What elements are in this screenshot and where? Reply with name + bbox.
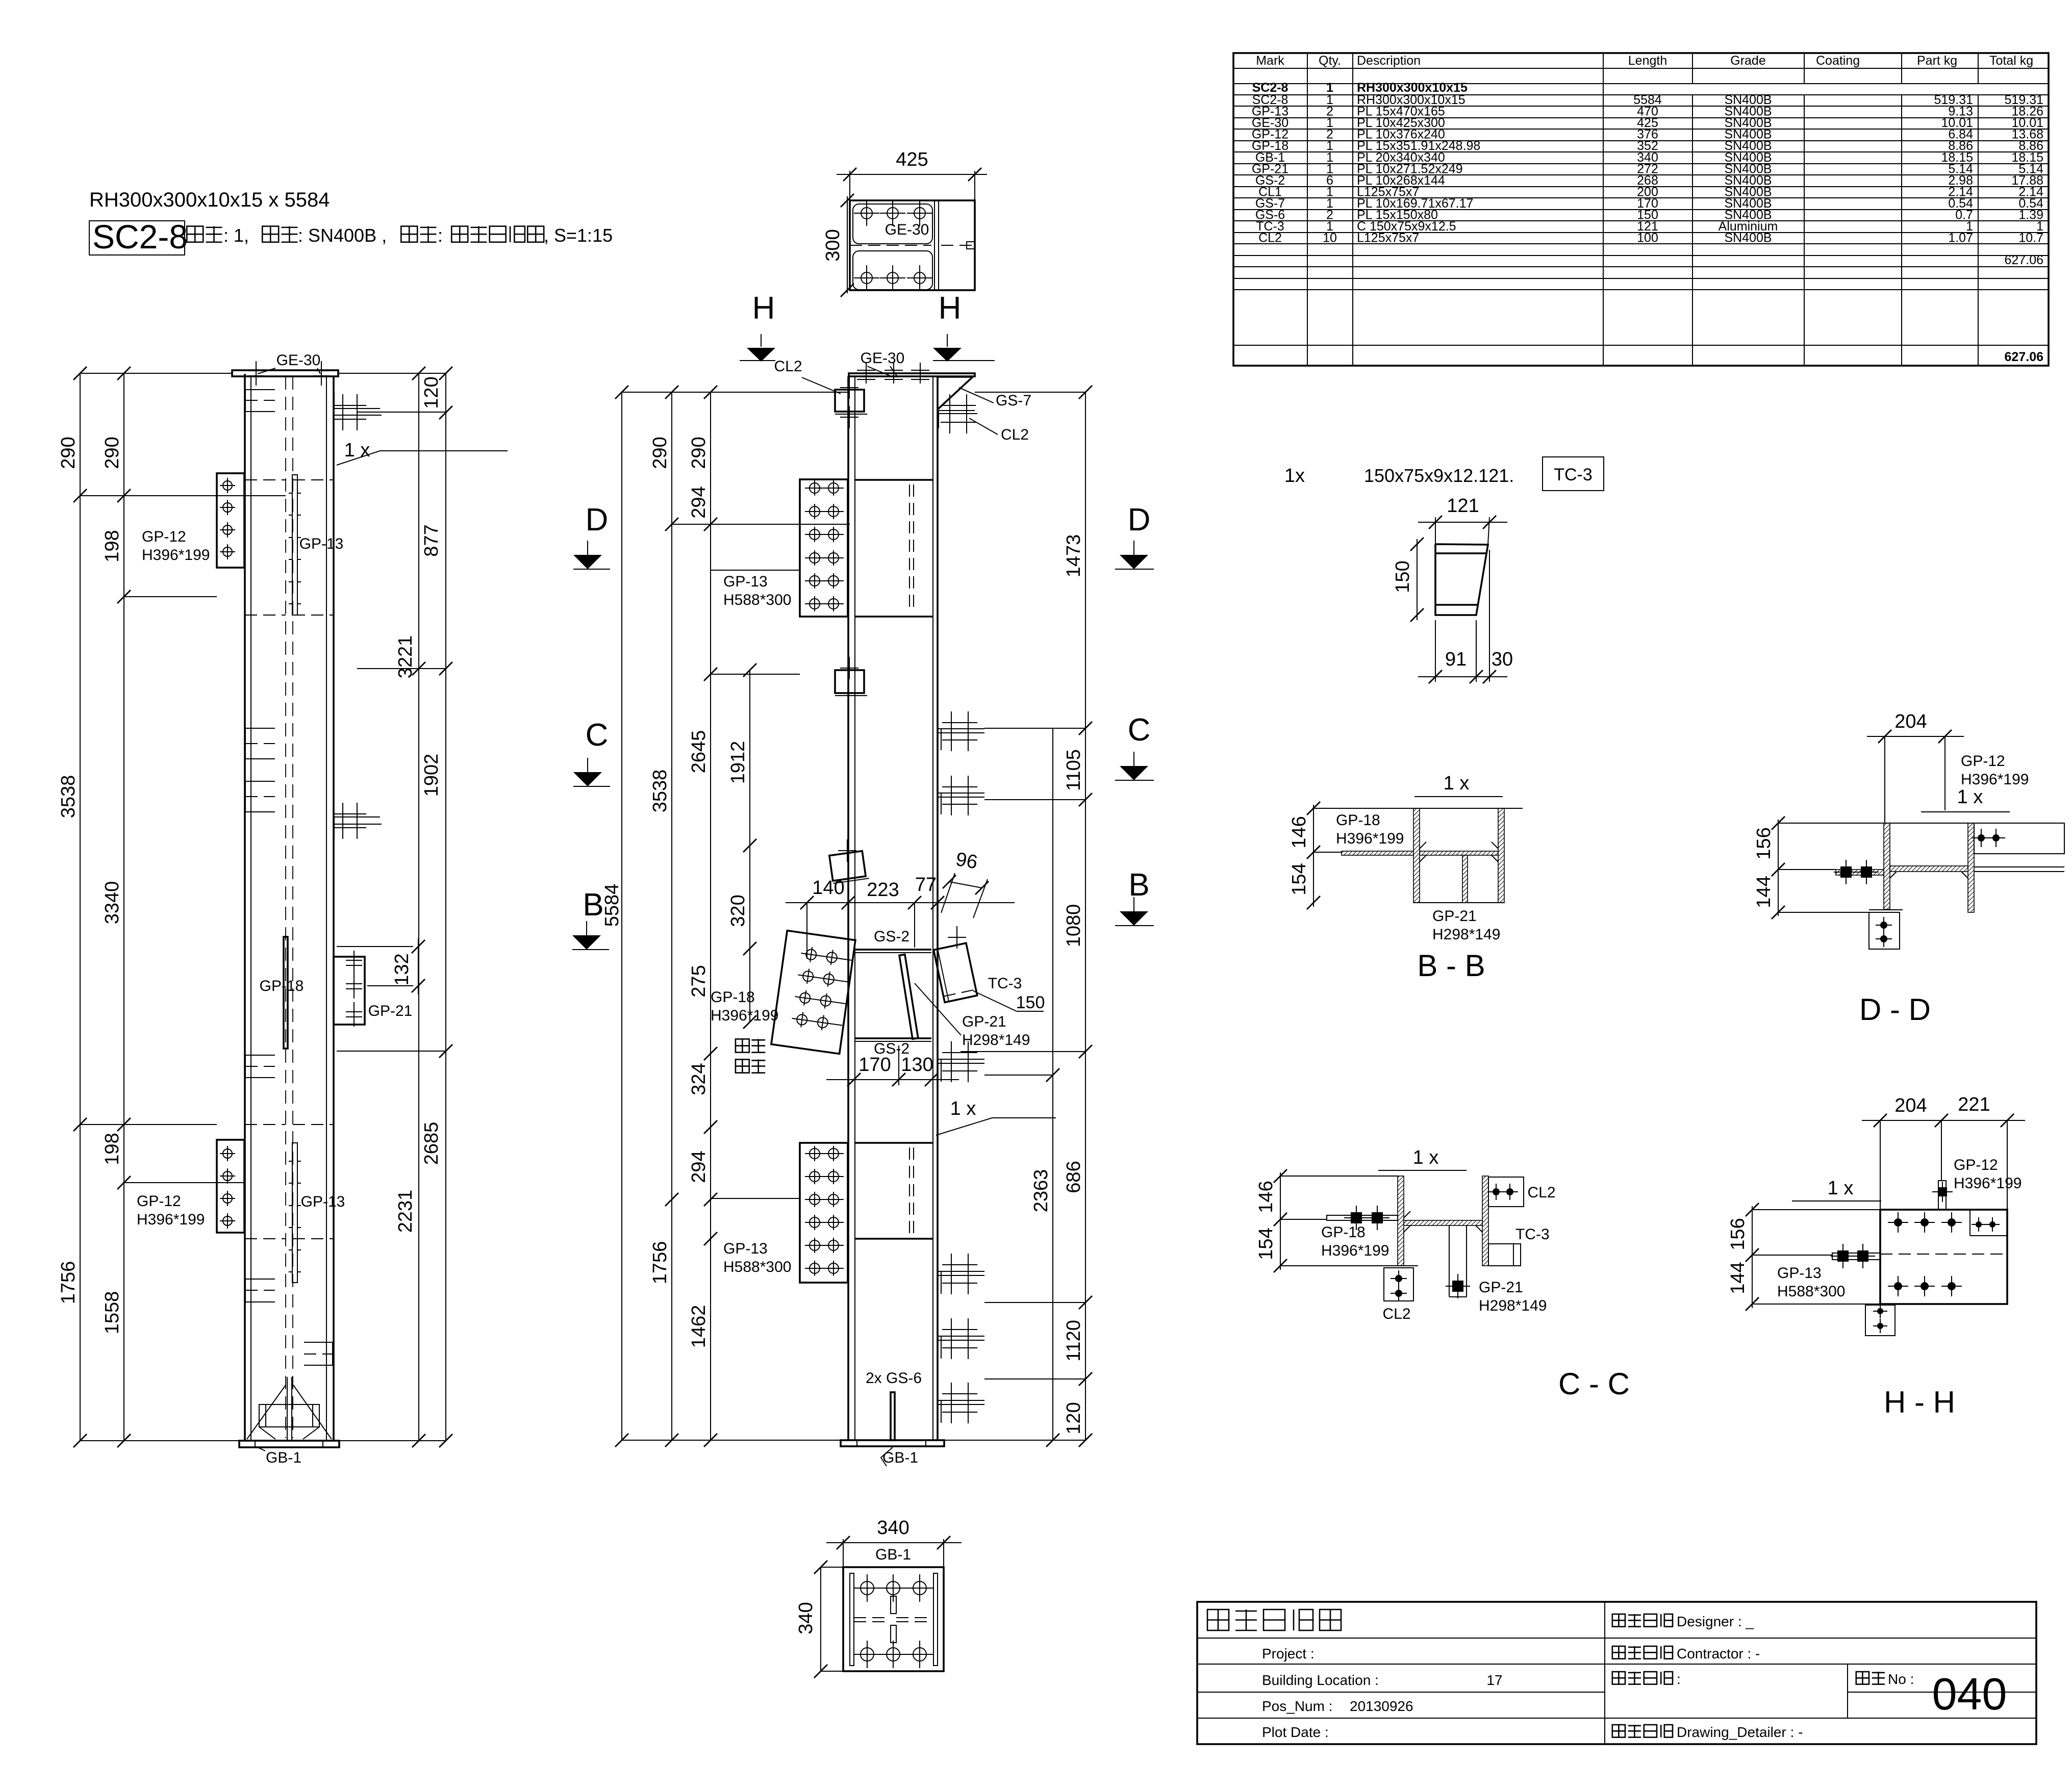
section D-D bottom plate CL (1869, 912, 1900, 949)
svg-text:275: 275 (688, 965, 710, 997)
svg-text:324: 324 (688, 1063, 710, 1095)
svg-text:C - C: C - C (1558, 1367, 1630, 1401)
svg-text:223: 223 (867, 879, 899, 901)
svg-text:156: 156 (1727, 1218, 1749, 1250)
svg-text:150: 150 (1392, 560, 1413, 593)
svg-text:TC-3: TC-3 (988, 975, 1022, 992)
svg-text:H298*149: H298*149 (1479, 1297, 1547, 1314)
svg-text:150: 150 (1016, 993, 1045, 1012)
svg-text:150x75x9x12.121.: 150x75x9x12.121. (1364, 465, 1514, 486)
left elevation inner dim line 290 198 3340 198 1558 (123, 373, 124, 1441)
svg-text:130: 130 (901, 1054, 933, 1076)
svg-text:GP-12: GP-12 (137, 1193, 181, 1210)
svg-text:686: 686 (1063, 1161, 1084, 1193)
svg-text:C: C (1128, 712, 1151, 748)
svg-text:RH300x300x10x15 x 5584: RH300x300x10x15 x 5584 (89, 189, 330, 211)
middle elevation dim line 5584 (621, 392, 622, 1440)
svg-text:GB-1: GB-1 (875, 1546, 911, 1563)
stiffener GS-2 lower (855, 1037, 931, 1039)
svg-text:GP-21: GP-21 (1479, 1279, 1523, 1296)
tilted plate CL on web (829, 851, 869, 883)
middle elevation extension lines (622, 392, 849, 393)
middle elevation horizontal dims 170 130 (826, 1079, 959, 1080)
svg-text:GP-12: GP-12 (1961, 753, 2005, 770)
svg-text:C: C (586, 718, 609, 753)
svg-text:H - H: H - H (1884, 1385, 1955, 1419)
beam GP-21 tilted edge view (899, 955, 918, 1039)
section H-H dims 156 144 (1752, 1206, 1753, 1308)
splice plate GP-13 upper middle view (800, 479, 848, 617)
svg-text:1120: 1120 (1063, 1320, 1084, 1362)
svg-text:77: 77 (915, 874, 937, 896)
svg-text:GP-21: GP-21 (1432, 908, 1477, 925)
TC-3 mark box (1543, 457, 1604, 491)
svg-text:10: 10 (1323, 231, 1337, 245)
svg-text:2231: 2231 (395, 1190, 416, 1233)
section D-D plate GP-12 right (1974, 823, 2064, 854)
beam pass lower middle view (855, 1142, 933, 1144)
svg-text:Qty.: Qty. (1319, 54, 1341, 68)
plate GP-18 edge view left elevation (284, 937, 288, 1049)
left elevation outer dim line 3538 1756 (80, 373, 81, 1441)
section H-H plate GP-12 top (1938, 1181, 1946, 1210)
svg-text:GS-7: GS-7 (996, 392, 1031, 409)
title block 圖面簽章 (1612, 1672, 1625, 1684)
svg-text:H: H (939, 291, 962, 326)
svg-text:1080: 1080 (1063, 904, 1084, 948)
svg-text:1 x: 1 x (950, 1098, 976, 1119)
section H-H plate GP-13 face (1880, 1210, 2007, 1304)
section B-B weld marks (1420, 855, 1426, 862)
section D-D column flange right (1968, 823, 1974, 912)
svg-text:3538: 3538 (58, 775, 79, 819)
section D-D column flange left (1884, 823, 1890, 909)
svg-text:1756: 1756 (58, 1261, 79, 1305)
svg-text:Contractor : -: Contractor : - (1677, 1646, 1760, 1662)
svg-text:GP-18: GP-18 (711, 989, 755, 1006)
svg-text:3221: 3221 (395, 635, 416, 679)
svg-text:1.07: 1.07 (1948, 231, 1973, 245)
svg-text:GP-13: GP-13 (1777, 1265, 1822, 1282)
splice plate GP-12 lower left view (217, 1140, 244, 1233)
base stiffener detail left view (259, 1404, 319, 1427)
GE-30 detail flange line (934, 200, 935, 290)
svg-text:H298*149: H298*149 (962, 1032, 1030, 1049)
middle elevation dim line 290 3538 1756 (671, 392, 672, 1440)
section C-C weld marks (1404, 1225, 1410, 1232)
lower C brackets left view (245, 1055, 275, 1078)
svg-text:TC-3: TC-3 (1515, 1226, 1550, 1243)
svg-text:146: 146 (1255, 1181, 1277, 1213)
svg-text:B: B (583, 887, 603, 923)
svg-text:1105: 1105 (1063, 749, 1084, 791)
svg-text:294: 294 (688, 486, 710, 518)
stiffener GS-2 upper (855, 949, 931, 951)
svg-text:290: 290 (102, 437, 123, 469)
section D-D plate GP-13 left (1836, 870, 1884, 875)
upper right angle clip CL (334, 408, 380, 409)
left elevation right outer dim line 120 877 1902 2685 (445, 373, 446, 1441)
svg-text:L125x75x7: L125x75x7 (1357, 231, 1419, 245)
svg-text:CL2: CL2 (1527, 1184, 1555, 1201)
splice plate GP-13 edge view upper (292, 475, 297, 615)
title block Designer (1612, 1614, 1625, 1627)
beam hidden lines upper left view (245, 479, 286, 480)
column SC2-8 left elevation body (244, 374, 246, 1441)
svg-text:H396*199: H396*199 (1954, 1175, 2022, 1192)
svg-text:H: H (752, 291, 775, 326)
svg-text:SN400B: SN400B (1724, 231, 1772, 245)
section H-H bottom plate CL (1865, 1305, 1895, 1336)
channel TC-3 tilted middle view (933, 943, 977, 1002)
svg-text:121: 121 (1447, 495, 1479, 517)
svg-text:H396*199: H396*199 (711, 1007, 778, 1024)
svg-text:Coating: Coating (1816, 54, 1860, 68)
svg-text:294: 294 (688, 1151, 710, 1183)
svg-text:H588*300: H588*300 (723, 1259, 791, 1275)
svg-text:Part kg: Part kg (1917, 54, 1957, 68)
middle elevation right dim 2363 (1052, 728, 1053, 1440)
svg-text:290: 290 (688, 437, 710, 469)
svg-text:H396*199: H396*199 (1961, 771, 2029, 788)
svg-text:B - B: B - B (1417, 949, 1485, 983)
section B-B plate GP-21 (1462, 855, 1468, 903)
section D-D dims 156 144 (1778, 820, 1779, 916)
section D-D outline (1884, 823, 1974, 824)
svg-text:GP-18: GP-18 (1321, 1224, 1366, 1241)
svg-text:2x GS-6: 2x GS-6 (866, 1370, 922, 1387)
svg-text:D: D (586, 502, 609, 538)
svg-text:H588*300: H588*300 (723, 592, 791, 608)
svg-text:144: 144 (1727, 1262, 1749, 1294)
angle clip CL2 below GS-7 (939, 410, 975, 411)
svg-text:2363: 2363 (1030, 1169, 1052, 1213)
svg-text:1 x: 1 x (1444, 773, 1470, 794)
section C-C dims 146 154 (1280, 1172, 1281, 1270)
svg-text:198: 198 (102, 530, 123, 562)
base plate GB-1 middle view (841, 1440, 944, 1446)
plate CL2 mid web (835, 670, 864, 693)
svg-text:GP-13: GP-13 (299, 535, 344, 552)
svg-text:627.06: 627.06 (2005, 350, 2043, 364)
splice plate GP-13 edge view lower (292, 1143, 297, 1283)
svg-text:30: 30 (1492, 649, 1513, 670)
svg-text:GP-18: GP-18 (1336, 812, 1380, 829)
svg-text:120: 120 (421, 376, 442, 408)
svg-text:GP-21: GP-21 (368, 1003, 413, 1019)
svg-text:120: 120 (1063, 1402, 1084, 1434)
svg-text:GS-2: GS-2 (874, 928, 909, 945)
left elevation extension lines (80, 373, 232, 374)
middle elevation horizontal dims 140 223 77 (786, 902, 1015, 903)
svg-text:1 x: 1 x (1828, 1178, 1854, 1199)
svg-text:154: 154 (1288, 863, 1310, 895)
svg-text:GB-1: GB-1 (266, 1449, 301, 1466)
svg-text:221: 221 (1958, 1094, 1990, 1115)
GB-1 bolt holes (861, 1581, 874, 1595)
svg-text:3340: 3340 (102, 881, 123, 925)
splice plate GP-12 upper left view (217, 473, 244, 568)
section B-B dims 146 154 (1313, 805, 1314, 907)
left elevation right inner dim line 3221 2231 (418, 373, 419, 1441)
svg-text:GP-18: GP-18 (260, 978, 304, 994)
section C-C plate CL2 bottom (1384, 1268, 1413, 1301)
svg-text:CL2: CL2 (1001, 426, 1029, 443)
svg-text:5584: 5584 (601, 884, 623, 927)
section D-D web (1890, 866, 1968, 872)
svg-text:D: D (1128, 502, 1151, 538)
svg-text:CL2: CL2 (1258, 231, 1282, 245)
svg-text:D - D: D - D (1859, 992, 1931, 1027)
section C-C beam GP-21 (1449, 1225, 1450, 1297)
beam hidden lines lower left view (245, 1124, 286, 1125)
svg-text:Grade: Grade (1730, 54, 1765, 68)
plate GP-18 tilted middle view (771, 931, 855, 1054)
GE-30 detail bolts (861, 208, 872, 219)
svg-text:877: 877 (421, 524, 442, 556)
section B-B outline (1413, 808, 1504, 809)
section C-C column flange left (1398, 1176, 1404, 1266)
svg-text:CL2: CL2 (1382, 1306, 1410, 1322)
svg-text:170: 170 (858, 1054, 891, 1076)
section D-D dim 204 (1867, 736, 1964, 737)
section B-B plate GP-18 (1342, 851, 1413, 855)
svg-text:96: 96 (954, 849, 979, 874)
svg-text:H396*199: H396*199 (137, 1211, 205, 1228)
upper left C bracket hidden (245, 390, 275, 412)
svg-text:H396*199: H396*199 (142, 547, 210, 564)
svg-text:H396*199: H396*199 (1336, 830, 1404, 847)
svg-text:290: 290 (58, 437, 79, 469)
section C-C plate GP-18 left (1327, 1215, 1398, 1220)
section H-H plate GP-13 bar left (1832, 1253, 1880, 1260)
GB-1 flange edge strips (850, 1573, 854, 1666)
svg-text:Total kg: Total kg (1989, 54, 2033, 68)
section C-C column flange right (1482, 1176, 1488, 1266)
svg-text:H588*300: H588*300 (1777, 1283, 1845, 1300)
dim 150 TC-3 (1417, 539, 1418, 620)
dim 340 left GB-1 (820, 1567, 821, 1671)
section B-B web (1420, 851, 1498, 855)
svg-text:144: 144 (1753, 876, 1775, 908)
svg-text:156: 156 (1753, 827, 1775, 859)
left elevation web centerline (285, 376, 286, 1438)
angle clips right flange C level (938, 728, 984, 729)
svg-text:SC2-8: SC2-8 (92, 218, 188, 255)
svg-text:Drawing_Detailer : -: Drawing_Detailer : - (1677, 1724, 1803, 1740)
svg-text:GP-12: GP-12 (142, 528, 186, 545)
plate detail GE-30 outline (850, 200, 975, 290)
svg-text:1902: 1902 (421, 754, 442, 797)
svg-text:627.06: 627.06 (2005, 253, 2043, 267)
middle elevation inner dim 1912 320 (749, 670, 750, 1022)
dim 340 GB-1 detail (826, 1542, 962, 1543)
dims 91 30 TC-3 (1418, 676, 1507, 677)
svg-text:H396*199: H396*199 (1321, 1242, 1389, 1259)
svg-text:TC-3: TC-3 (1554, 465, 1593, 484)
section C-C web (1404, 1220, 1482, 1225)
section C-C channel TC-3 right (1488, 1244, 1521, 1266)
svg-text:GE-30: GE-30 (861, 350, 905, 367)
svg-text:: SN400B ,: : SN400B , (298, 225, 387, 246)
mid right angle clip (334, 816, 380, 817)
splice plate GP-13 lower middle view (800, 1143, 848, 1283)
svg-text:: 1,: : 1, (223, 225, 249, 246)
title block heading 構件加工圖 (1207, 1609, 1229, 1630)
title block Drawing Detailer (1612, 1725, 1625, 1737)
svg-text:300: 300 (822, 229, 844, 261)
svg-text:Building Location :: Building Location : (1262, 1672, 1379, 1688)
top end plate GE-30 edge view (232, 370, 338, 376)
plate GP-21 left elevation (334, 957, 365, 1025)
note first bolt row chinese (736, 1039, 749, 1052)
svg-text:340: 340 (795, 1602, 817, 1634)
svg-text:140: 140 (812, 877, 844, 899)
GE-30 detail hidden section outline (853, 204, 932, 244)
mid C brackets left side (245, 728, 275, 759)
dim 425 GE-30 detail (837, 174, 987, 175)
svg-text:, S=1:15: , S=1:15 (544, 225, 613, 246)
part mark box SC2-8 (89, 221, 185, 255)
base plate GB-1 edge view left (239, 1441, 339, 1447)
svg-text:Description: Description (1357, 54, 1421, 68)
svg-text:198: 198 (102, 1133, 123, 1165)
top end plate GE-30 edge view middle (849, 373, 975, 376)
svg-text:GP-13: GP-13 (301, 1193, 345, 1210)
GB-1 center slots (891, 1596, 896, 1614)
svg-text:100: 100 (1637, 231, 1658, 245)
middle elevation right dim line 1473 1105 1080 686 1120 120 (1085, 392, 1086, 1440)
svg-text:154: 154 (1255, 1228, 1277, 1260)
svg-text:1558: 1558 (102, 1291, 123, 1335)
svg-text:20130926: 20130926 (1350, 1698, 1413, 1714)
svg-text:1912: 1912 (727, 741, 749, 784)
svg-text:91: 91 (1445, 649, 1467, 670)
svg-text:1 x: 1 x (1413, 1147, 1439, 1168)
svg-text::: : (1677, 1671, 1681, 1687)
svg-text:H298*149: H298*149 (1432, 926, 1500, 943)
svg-text::: : (438, 225, 443, 246)
svg-text:1x: 1x (1284, 465, 1305, 487)
dim 300 GE-30 detail (847, 196, 848, 293)
svg-text:GP-21: GP-21 (962, 1013, 1006, 1030)
dim 96 tilted (949, 882, 982, 888)
svg-text:Designer : _: Designer : _ (1677, 1614, 1754, 1629)
GB-1 hidden web lines (854, 1617, 891, 1618)
svg-text:1 x: 1 x (344, 440, 370, 461)
dim 132 left view (418, 938, 419, 994)
svg-text:204: 204 (1894, 711, 1927, 732)
svg-text:Length: Length (1628, 54, 1667, 68)
svg-text:040: 040 (1932, 1669, 2007, 1719)
column SC2-8 middle elevation right flange (932, 376, 933, 1440)
title block 圖號No (1856, 1672, 1869, 1684)
svg-text:290: 290 (649, 437, 671, 469)
plate CL2 top left middle view (835, 390, 864, 412)
angle clips right flange lower middle view (938, 1059, 984, 1060)
svg-text:3538: 3538 (649, 770, 671, 813)
dim 121 TC-3 (1418, 522, 1507, 523)
svg-text:2645: 2645 (688, 730, 710, 774)
title block frame (1197, 1602, 2036, 1744)
svg-text:1756: 1756 (649, 1241, 671, 1285)
svg-text:17: 17 (1486, 1672, 1502, 1688)
parts list table (1233, 53, 2049, 366)
svg-text:132: 132 (391, 953, 413, 985)
column SC2-8 middle elevation left flange (847, 376, 849, 1440)
top plate bolts middle view (866, 363, 867, 384)
svg-text:340: 340 (877, 1517, 909, 1539)
svg-text:1473: 1473 (1063, 534, 1084, 578)
gusset GS-7 top right (938, 377, 973, 409)
svg-text:146: 146 (1288, 816, 1310, 848)
middle elevation dim line 294 2645 ... (710, 392, 711, 1440)
beam pass upper middle view (855, 479, 933, 481)
base plate GB-1 outline (843, 1567, 944, 1671)
svg-text:Project :: Project : (1262, 1646, 1315, 1662)
svg-text:CL2: CL2 (774, 358, 802, 375)
svg-text:204: 204 (1894, 1095, 1927, 1116)
part attributes text (187, 226, 203, 242)
svg-text:Mark: Mark (1256, 54, 1284, 68)
top plate bolts left view (256, 361, 257, 386)
svg-text:No :: No : (1888, 1671, 1914, 1687)
svg-text:Pos_Num :: Pos_Num : (1262, 1698, 1333, 1714)
svg-text:2685: 2685 (421, 1122, 442, 1165)
svg-text:GP-12: GP-12 (1954, 1157, 1998, 1173)
svg-text:GE-30: GE-30 (885, 221, 929, 238)
svg-text:GP-13: GP-13 (723, 573, 768, 590)
channel TC-3 cross section detail (1435, 544, 1488, 615)
svg-text:GP-13: GP-13 (723, 1240, 768, 1257)
svg-text:GE-30: GE-30 (276, 352, 321, 369)
section B-B column flange right (1498, 808, 1504, 903)
svg-text:10.7: 10.7 (2018, 231, 2043, 245)
section B-B column flange left (1413, 808, 1420, 903)
svg-text:320: 320 (727, 895, 749, 927)
svg-text:1 x: 1 x (1957, 786, 1983, 808)
stiffener GS-6 pair bottom (891, 1392, 895, 1440)
section H-H dims 204 221 (1862, 1120, 2025, 1121)
svg-text:Plot Date :: Plot Date : (1262, 1724, 1329, 1740)
section D-D weld marks (1890, 872, 1897, 878)
svg-text:B: B (1128, 867, 1149, 903)
title block Contractor (1612, 1646, 1625, 1659)
svg-text:1462: 1462 (688, 1305, 710, 1348)
section C-C plate CL2 top right (1488, 1177, 1524, 1207)
svg-text:425: 425 (896, 149, 928, 170)
